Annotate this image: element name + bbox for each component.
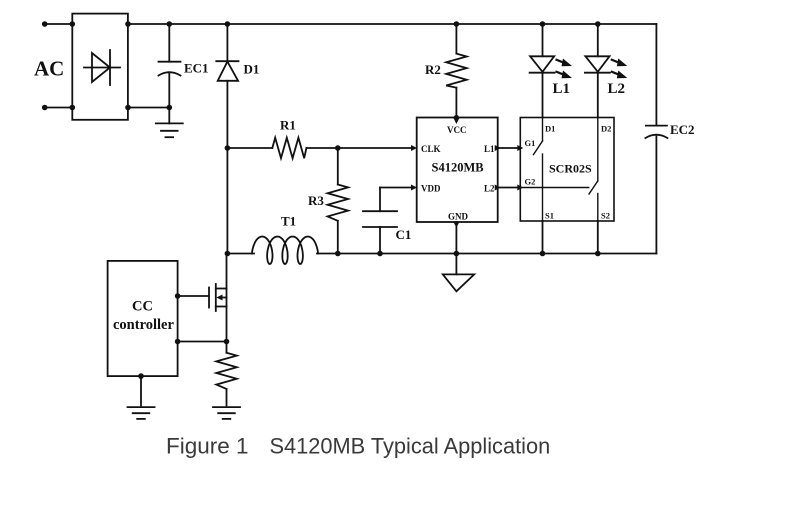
resistor R3 (328, 148, 349, 254)
LED L1 emission arrows (557, 59, 573, 67)
resistor R1 (227, 138, 414, 159)
pin arrow G2 (517, 185, 523, 191)
svg-text:VCC: VCC (447, 125, 467, 135)
svg-text:D1: D1 (244, 62, 260, 77)
node: source junction (224, 339, 230, 345)
pin arrow CLK (411, 145, 417, 151)
svg-text:G1: G1 (525, 138, 536, 148)
ground: signal ground triangle (443, 274, 474, 291)
inductor T1 (252, 237, 318, 265)
node: R1/R3 junction (335, 145, 341, 151)
capacitor EC2 (645, 126, 667, 138)
wire: right rail (655, 24, 657, 254)
svg-text:GND: GND (448, 212, 469, 222)
node: S2 rail (595, 251, 601, 257)
wire: S2 to rail (597, 221, 599, 254)
svg-text:L2: L2 (608, 81, 626, 97)
LED L2 (585, 24, 610, 118)
svg-text:L1: L1 (553, 81, 571, 97)
pin arrow VDD (411, 185, 417, 191)
node: VCC pin (454, 115, 459, 120)
node: D1 top (225, 21, 231, 27)
svg-text:R3: R3 (308, 193, 324, 208)
wire: GND pin to rail (455, 222, 457, 274)
svg-text:VDD: VDD (421, 184, 441, 194)
svg-text:Figure 1: Figure 1 (166, 434, 249, 459)
svg-text:D2: D2 (601, 124, 611, 134)
node: L1 top (540, 21, 546, 27)
pin arrow L1 (495, 145, 501, 151)
switch 2 inside SCR (D2-S2) (520, 118, 598, 222)
resistor R4 (source resistor) (216, 353, 237, 406)
ground: below source resistor (213, 407, 240, 419)
svg-text:CC: CC (132, 299, 153, 315)
pin arrow VCC (453, 118, 459, 124)
wire: S1 to rail (542, 221, 544, 254)
pin arrow G1 (517, 145, 523, 151)
node: L2 top (595, 21, 601, 27)
node: bridge output bottom (125, 105, 131, 111)
svg-text:AC: AC (34, 57, 64, 81)
wire: L1 pin to G1 (498, 147, 521, 149)
pin arrow L2 (495, 185, 501, 191)
svg-text:EC1: EC1 (184, 61, 209, 76)
AC input terminal bottom (42, 105, 72, 111)
node: R3 bottom (335, 251, 341, 257)
LED L1 (530, 24, 555, 118)
CC controller box (108, 261, 178, 376)
IC U1 S4120MB box (417, 118, 498, 223)
node: CC gate pin (175, 293, 181, 299)
AC input terminal top (42, 21, 72, 27)
svg-text:CLK: CLK (421, 144, 441, 154)
svg-text:S1: S1 (545, 211, 554, 221)
wire: bottom rail (227, 253, 656, 255)
svg-text:D1: D1 (545, 124, 555, 134)
node: S1 rail (540, 251, 546, 257)
ground: below CC controller (128, 407, 155, 419)
node: bridge output top (125, 21, 131, 27)
SCR U2 SCR02S box (520, 118, 614, 222)
svg-text:SCR02S: SCR02S (549, 162, 592, 176)
svg-text:S4120MB Typical Application: S4120MB Typical Application (270, 434, 551, 459)
svg-text:R1: R1 (280, 118, 296, 133)
LED L2 emission arrows (612, 59, 628, 67)
svg-text:S4120MB: S4120MB (432, 161, 484, 175)
wire: drain up (226, 254, 228, 289)
node: CC box bottom (138, 373, 144, 379)
svg-text:G2: G2 (525, 177, 536, 187)
node: EC1 top (167, 21, 173, 27)
wire: CC box to ground (140, 376, 142, 405)
svg-text:L2: L2 (484, 184, 495, 194)
wire: gate (178, 295, 209, 297)
pin arrow GND (453, 222, 459, 228)
node: bridge input top (70, 21, 76, 27)
capacitor EC1 (159, 24, 181, 108)
capacitor C1 (363, 188, 397, 254)
svg-text:T1: T1 (281, 214, 296, 229)
svg-text:L1: L1 (484, 144, 495, 154)
wire: source to CC box (178, 341, 227, 343)
node: CC lower pin (175, 339, 181, 345)
resistor R2 (446, 24, 467, 118)
svg-text:controller: controller (113, 317, 174, 333)
svg-text:R2: R2 (425, 62, 441, 77)
node: R2 top (454, 21, 460, 27)
node: bridge input bottom (70, 105, 76, 111)
wire: bottom left of bridge to EC1 (128, 107, 169, 109)
node: C1 bottom (377, 251, 383, 257)
wire: L2 pin to G2 (498, 187, 521, 189)
node: EC1 bottom (167, 105, 173, 111)
node: rail T1 left (225, 251, 231, 257)
svg-text:S2: S2 (601, 211, 610, 221)
wire: top rail (128, 23, 656, 25)
node: R1 left junction (225, 145, 231, 151)
transistor Q1 MOSFET (209, 284, 227, 311)
bridge rectifier diode symbol (84, 50, 120, 85)
node: GND rail junction (454, 251, 460, 257)
svg-text:C1: C1 (396, 227, 412, 242)
wire: source down (226, 307, 228, 353)
diode D1 (216, 24, 238, 254)
bridge rectifier box (72, 14, 128, 120)
wire: C1 to VDD pin (380, 187, 414, 189)
ground: below EC1 (156, 108, 183, 138)
svg-text:EC2: EC2 (670, 122, 695, 137)
switch 1 inside SCR (D1-S1) (534, 118, 543, 222)
